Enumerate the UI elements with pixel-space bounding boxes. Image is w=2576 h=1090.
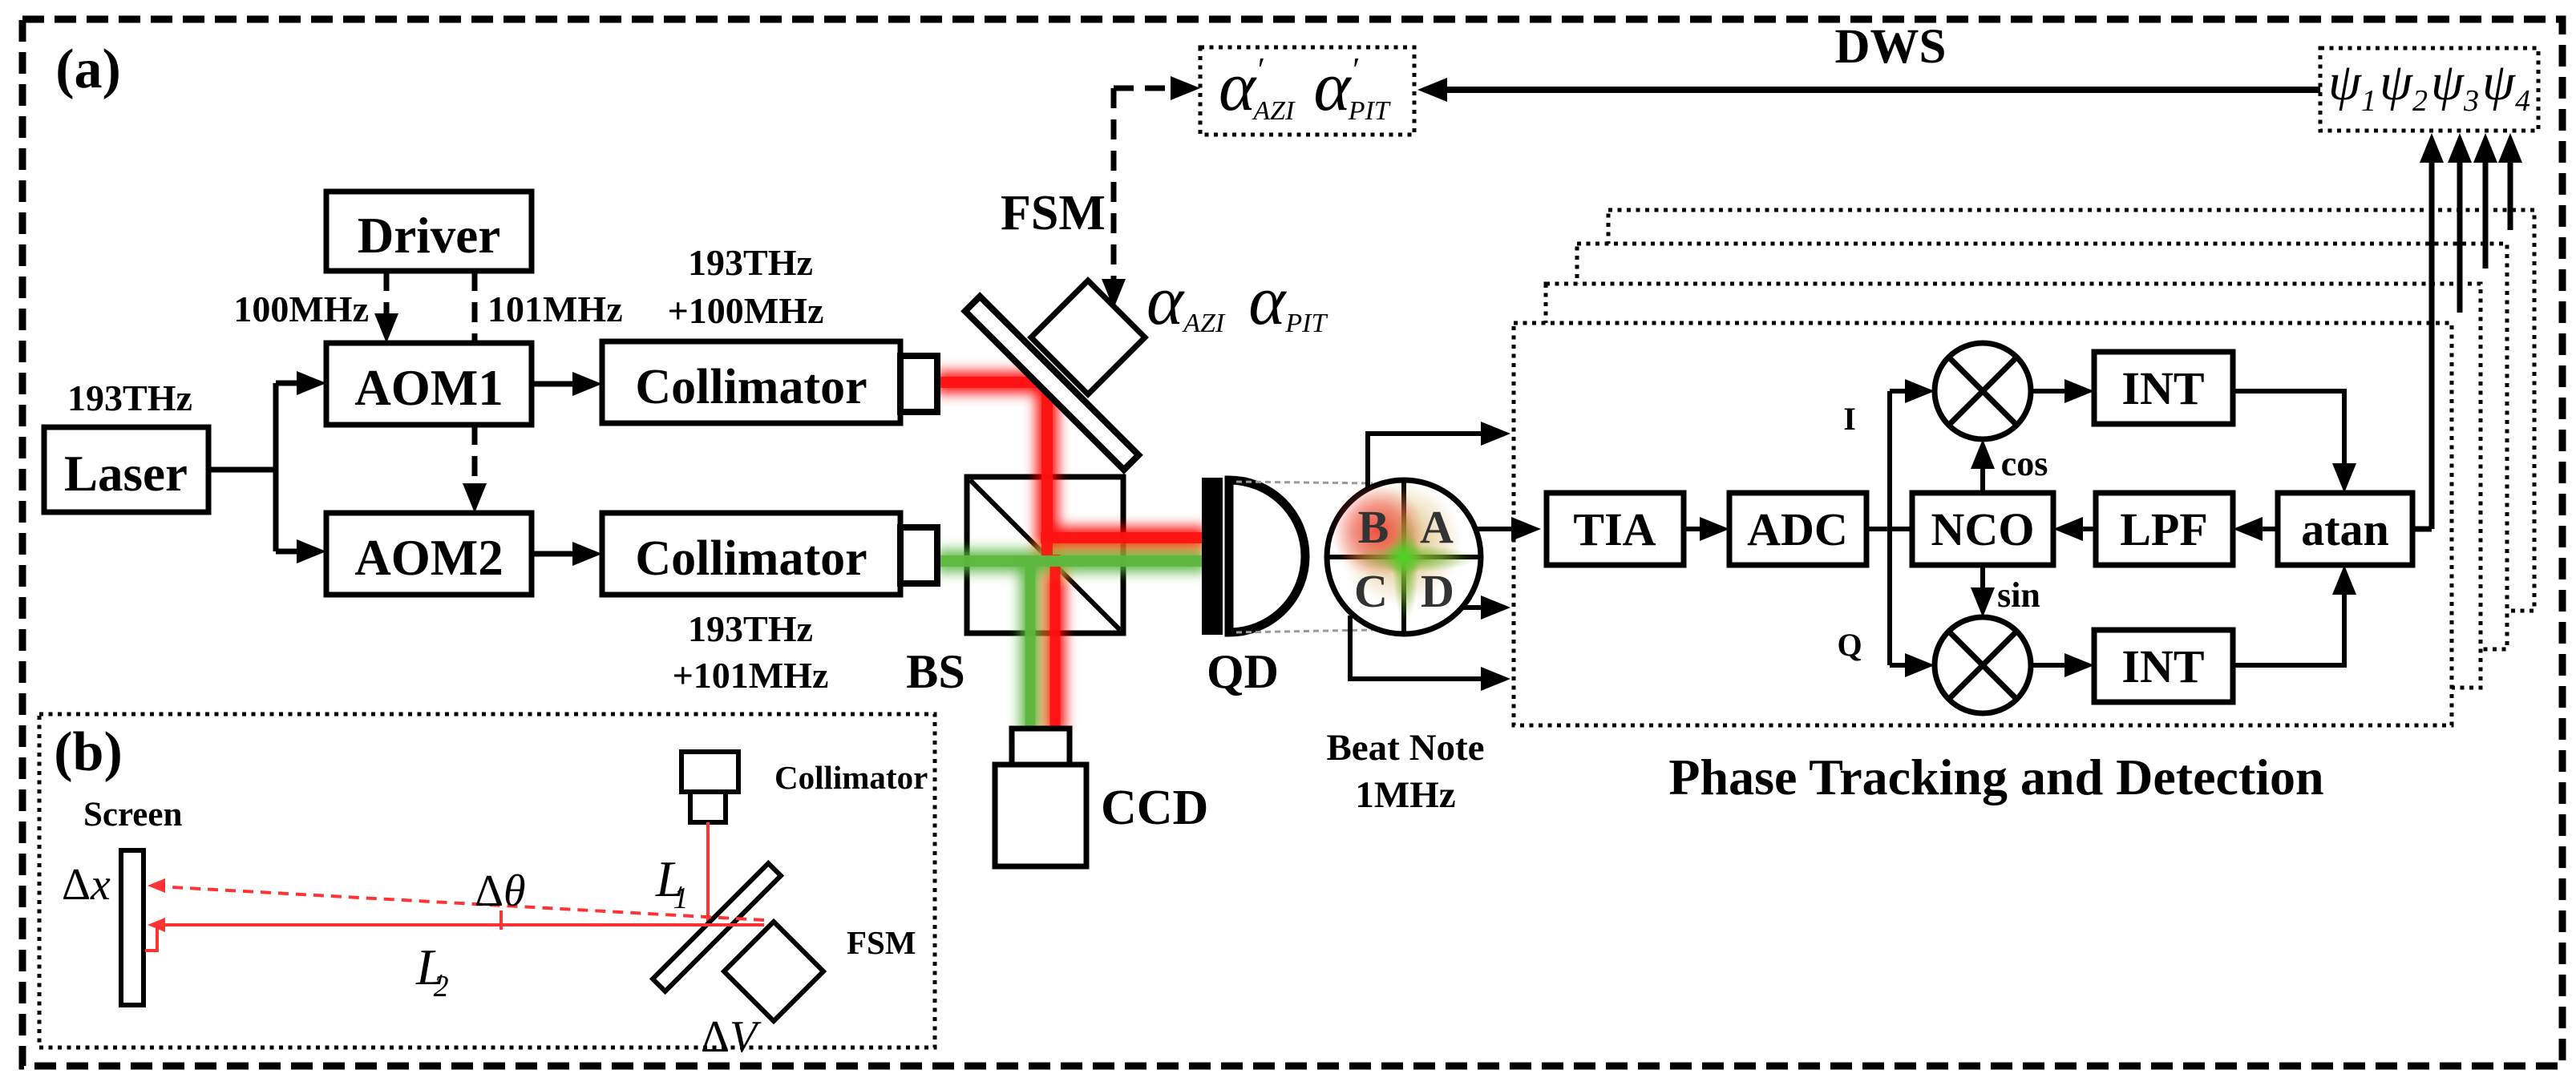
svg-text:193THz: 193THz [688, 608, 813, 649]
svg-text:Q: Q [1837, 627, 1862, 663]
svg-text:Laser: Laser [64, 446, 188, 502]
svg-text:(b): (b) [54, 721, 123, 783]
svg-text:L2: L2 [415, 939, 449, 1003]
svg-text:Beat Note: Beat Note [1326, 727, 1484, 769]
svg-text:I: I [1843, 401, 1856, 437]
svg-text:D: D [1421, 565, 1454, 617]
svg-text:C: C [1354, 565, 1388, 617]
svg-text:AOM1: AOM1 [354, 360, 503, 416]
svg-text:ADC: ADC [1747, 503, 1848, 555]
svg-text:Collimator: Collimator [635, 360, 867, 414]
svg-text:100MHz: 100MHz [233, 289, 369, 329]
svg-text:QD: QD [1207, 645, 1279, 698]
svg-text:Collimator: Collimator [774, 759, 928, 796]
svg-text:sin: sin [1997, 575, 2040, 615]
svg-text:LPF: LPF [2120, 503, 2208, 555]
svg-text:L1: L1 [655, 850, 689, 915]
svg-text:1MHz: 1MHz [1355, 774, 1455, 816]
svg-text:Phase Tracking and Detection: Phase Tracking and Detection [1668, 749, 2323, 805]
svg-text:INT: INT [2121, 640, 2204, 692]
svg-text:Screen: Screen [83, 796, 182, 834]
svg-text:A: A [1420, 501, 1454, 553]
svg-text:cos: cos [2001, 444, 2048, 483]
svg-text:+100MHz: +100MHz [668, 290, 824, 331]
svg-text:NCO: NCO [1931, 503, 2035, 555]
svg-text:Δx: Δx [62, 860, 111, 910]
svg-text:TIA: TIA [1573, 503, 1656, 555]
svg-text:INT: INT [2121, 362, 2204, 414]
svg-text:101MHz: 101MHz [487, 289, 623, 329]
svg-text:FSM: FSM [847, 924, 916, 961]
svg-text:(a): (a) [55, 38, 121, 100]
svg-text:193THz: 193THz [688, 242, 813, 283]
svg-text:Collimator: Collimator [635, 531, 867, 586]
svg-text:BS: BS [906, 645, 964, 698]
svg-text:DWS: DWS [1835, 20, 1947, 74]
svg-text:193THz: 193THz [67, 377, 192, 418]
svg-text:ΔV: ΔV [701, 1012, 762, 1062]
svg-text:AOM2: AOM2 [354, 530, 503, 586]
svg-text:B: B [1358, 501, 1389, 553]
svg-text:FSM: FSM [1001, 186, 1106, 240]
svg-text:Driver: Driver [358, 208, 500, 264]
svg-text:atan: atan [2301, 503, 2389, 555]
svg-text:Δθ: Δθ [475, 866, 526, 916]
svg-text:+101MHz: +101MHz [673, 655, 829, 696]
svg-text:CCD: CCD [1101, 781, 1208, 835]
